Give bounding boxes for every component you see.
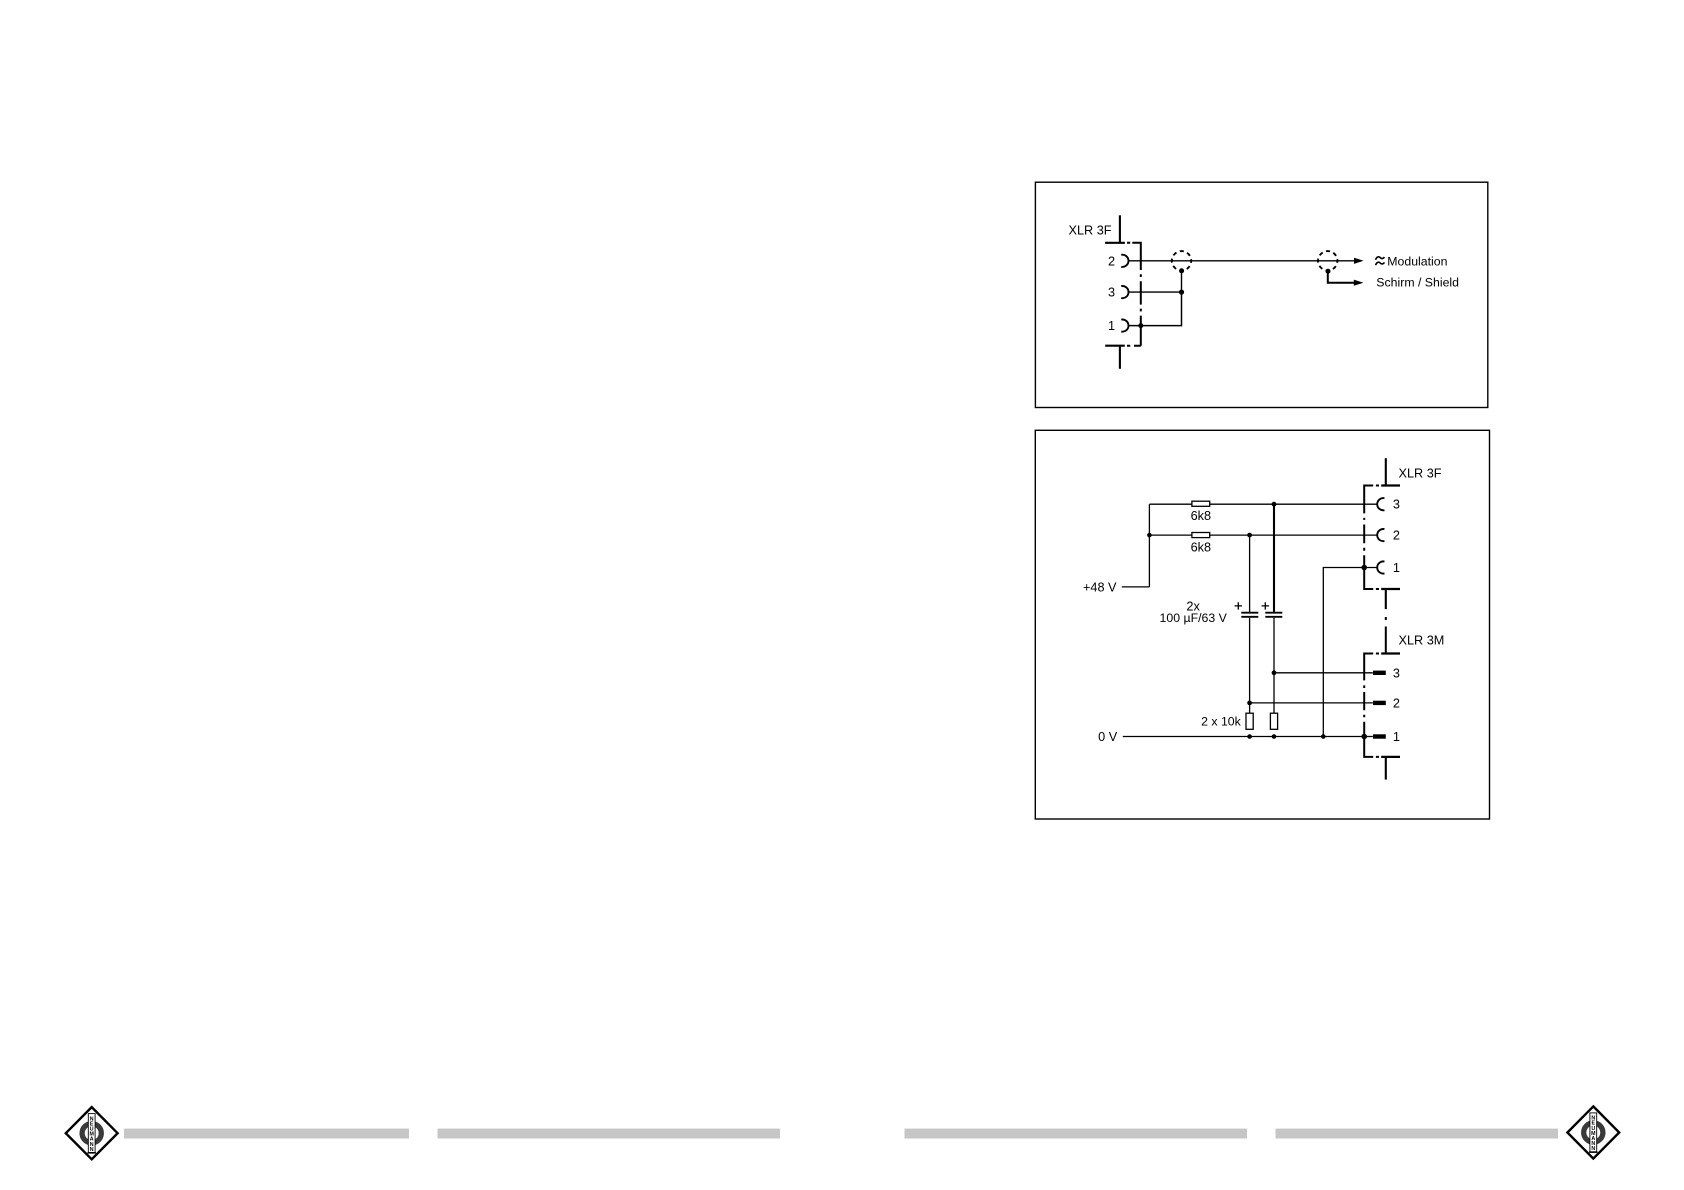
connector shell dash-dot boundary (vertical) [1140,274,1142,346]
Neumann logo (left) [66,1107,118,1159]
junction dot C1 branch / XLR3M pin 2 [1247,701,1252,706]
junction dot pin 1 on shell boundary [1138,323,1143,328]
frame box 1 [1035,182,1487,407]
XLR 3M dash-dot boundary top corner [1364,654,1379,681]
XLR 3F (box2) dash-dot boundary top corner [1364,486,1379,514]
svg-text:2: 2 [1393,696,1400,710]
svg-text:100 µF/63 V: 100 µF/63 V [1160,611,1228,625]
pin 3 male contact (XLR 3M) [1373,671,1386,675]
10k resistor R4 [1270,713,1277,729]
XLR 3F (box2) dash-dot boundary bottom corner [1364,555,1379,589]
pin 3 contact arc (box2 XLR3F) [1377,498,1384,510]
svg-text:0 V: 0 V [1098,730,1118,744]
junction dot R4 / 0V [1272,734,1277,739]
wire pin 3 to node [1129,291,1182,293]
pin 1 contact arc (box2 XLR3F) [1377,561,1384,573]
XLR 3M dash-dot boundary bottom corner [1364,722,1379,757]
connector shell dash-dot boundary (top corner) [1127,243,1141,270]
pin 3 contact arc [1121,286,1128,298]
6k8 resistor R1 [1192,501,1210,506]
junction dot pin 3 node [1179,290,1184,295]
svg-text:1: 1 [1393,730,1400,744]
pin 1 contact arc [1121,319,1128,331]
footer gray bar 2 [438,1129,781,1139]
svg-text:2: 2 [1393,529,1400,543]
plus sign of C2 [1262,602,1269,609]
junction dot below left sleeve [1179,268,1184,273]
wire 0V up to XLR3F pin 1 [1323,568,1376,737]
wire to XLR 3M pin 3 [1274,672,1373,674]
wire pin 2 to modulation arrow [1129,260,1355,262]
wire +48V corner to R1 [1150,503,1192,505]
10k resistor R3 [1246,713,1253,729]
connector shell XLR 3F top stub [1119,215,1121,243]
svg-text:+48 V: +48 V [1083,580,1117,594]
svg-text:Schirm / Shield: Schirm / Shield [1376,276,1459,290]
svg-text:2: 2 [1108,254,1115,268]
wire pin3 line down to C2 (bold) [1273,504,1275,612]
Neumann logo (right) [1567,1106,1619,1158]
wire left sleeve down to pin3 node [1181,270,1183,292]
plus sign of C1 [1235,602,1242,609]
svg-text:XLR 3M: XLR 3M [1399,634,1445,648]
svg-text:3: 3 [1393,666,1400,680]
wire to XLR 3M pin 2 [1250,702,1373,704]
node pin2/capacitor C1 (junction dot) [1247,533,1252,538]
junction dot R3 / 0V [1247,734,1252,739]
wire C2 bottom to 10k resistor R4 [1273,618,1275,714]
wire pin2 line down to C1 [1249,535,1251,612]
wire 0V rail [1123,736,1364,738]
capacitor C1 plates [1241,613,1258,617]
svg-text:XLR 3F: XLR 3F [1399,466,1442,480]
XLR 3F (box2) shell bottom stub [1385,589,1387,609]
connector shell XLR 3F bottom bar [1105,345,1125,347]
connector shell XLR 3F top bar [1105,242,1125,244]
XLR 3F (box2) shell top bar [1381,484,1400,486]
XLR 3F (box2) shell top stub [1385,458,1387,485]
frame box 2 [1035,430,1489,819]
pin 1 male contact (XLR 3M) [1373,734,1386,738]
svg-text:3: 3 [1108,286,1115,300]
svg-text:XLR 3F: XLR 3F [1069,223,1112,237]
wire +48V junction to R2 [1149,534,1192,536]
junction dot +48V / R2 tap [1147,533,1152,538]
svg-text:2 x 10k: 2 x 10k [1201,714,1241,728]
footer gray bar 3 [905,1129,1248,1139]
XLR 3F (box2) dash-dot boundary vertical [1363,518,1365,551]
footer gray bar 1 [124,1129,409,1139]
junction dot below right sleeve [1326,269,1331,274]
XLR 3F (box2) shell bottom bar [1381,588,1400,590]
capacitor C2 plates [1265,613,1282,617]
arrow shield [1354,280,1364,286]
XLR 3M shell bottom stub [1385,757,1387,780]
svg-text:1: 1 [1108,319,1115,333]
footer gray bar 4 [1276,1129,1559,1139]
wire +48V vertical riser [1148,504,1150,587]
wire +48V horizontal lead [1122,586,1150,588]
svg-text:6k8: 6k8 [1191,541,1211,555]
dash-dot link between connectors [1385,617,1387,654]
wire pin3 node down to pin1 line [1129,292,1182,326]
XLR 3M shell bottom bar [1381,756,1400,758]
node pin3/capacitor C2 (junction dot) [1272,502,1277,507]
6k8 resistor R2 [1192,533,1210,538]
wire R2 to XLR3F pin 2 [1210,534,1377,536]
approx symbol [1376,257,1385,265]
junction dot C2 branch / XLR3M pin 3 [1272,670,1277,675]
connector shell dash-dot boundary (bottom corner) [1127,345,1141,347]
connector shell XLR 3F bottom stub [1119,346,1121,369]
arrow modulation [1354,258,1364,264]
cable sleeve right (dashed circle) [1318,251,1337,270]
XLR 3M dash-dot boundary vertical [1363,685,1365,717]
junction dot 0V / pin1 branch [1321,734,1326,739]
cable sleeve left (dashed circle) [1172,251,1191,270]
wire R1 to XLR3F pin 3 [1210,503,1377,505]
XLR 3M shell top bar [1381,652,1400,654]
wire 0V to pin 1 male contact [1364,736,1373,738]
wire shield to arrow [1328,271,1354,283]
svg-text:Modulation: Modulation [1387,254,1447,268]
pin 2 contact arc (box2 XLR3F) [1377,529,1384,541]
junction dot pin 1 on shell boundary (box2 XLR3F) [1361,565,1367,571]
svg-text:1: 1 [1393,561,1400,575]
wire C1 bottom to 10k resistor R3 [1249,618,1251,714]
svg-text:3: 3 [1393,498,1400,512]
pin 2 male contact (XLR 3M) [1373,701,1386,705]
svg-text:6k8: 6k8 [1191,509,1211,523]
junction dot pin 1 on shell boundary (XLR 3M) [1361,734,1367,740]
pin 2 contact arc [1121,255,1128,267]
